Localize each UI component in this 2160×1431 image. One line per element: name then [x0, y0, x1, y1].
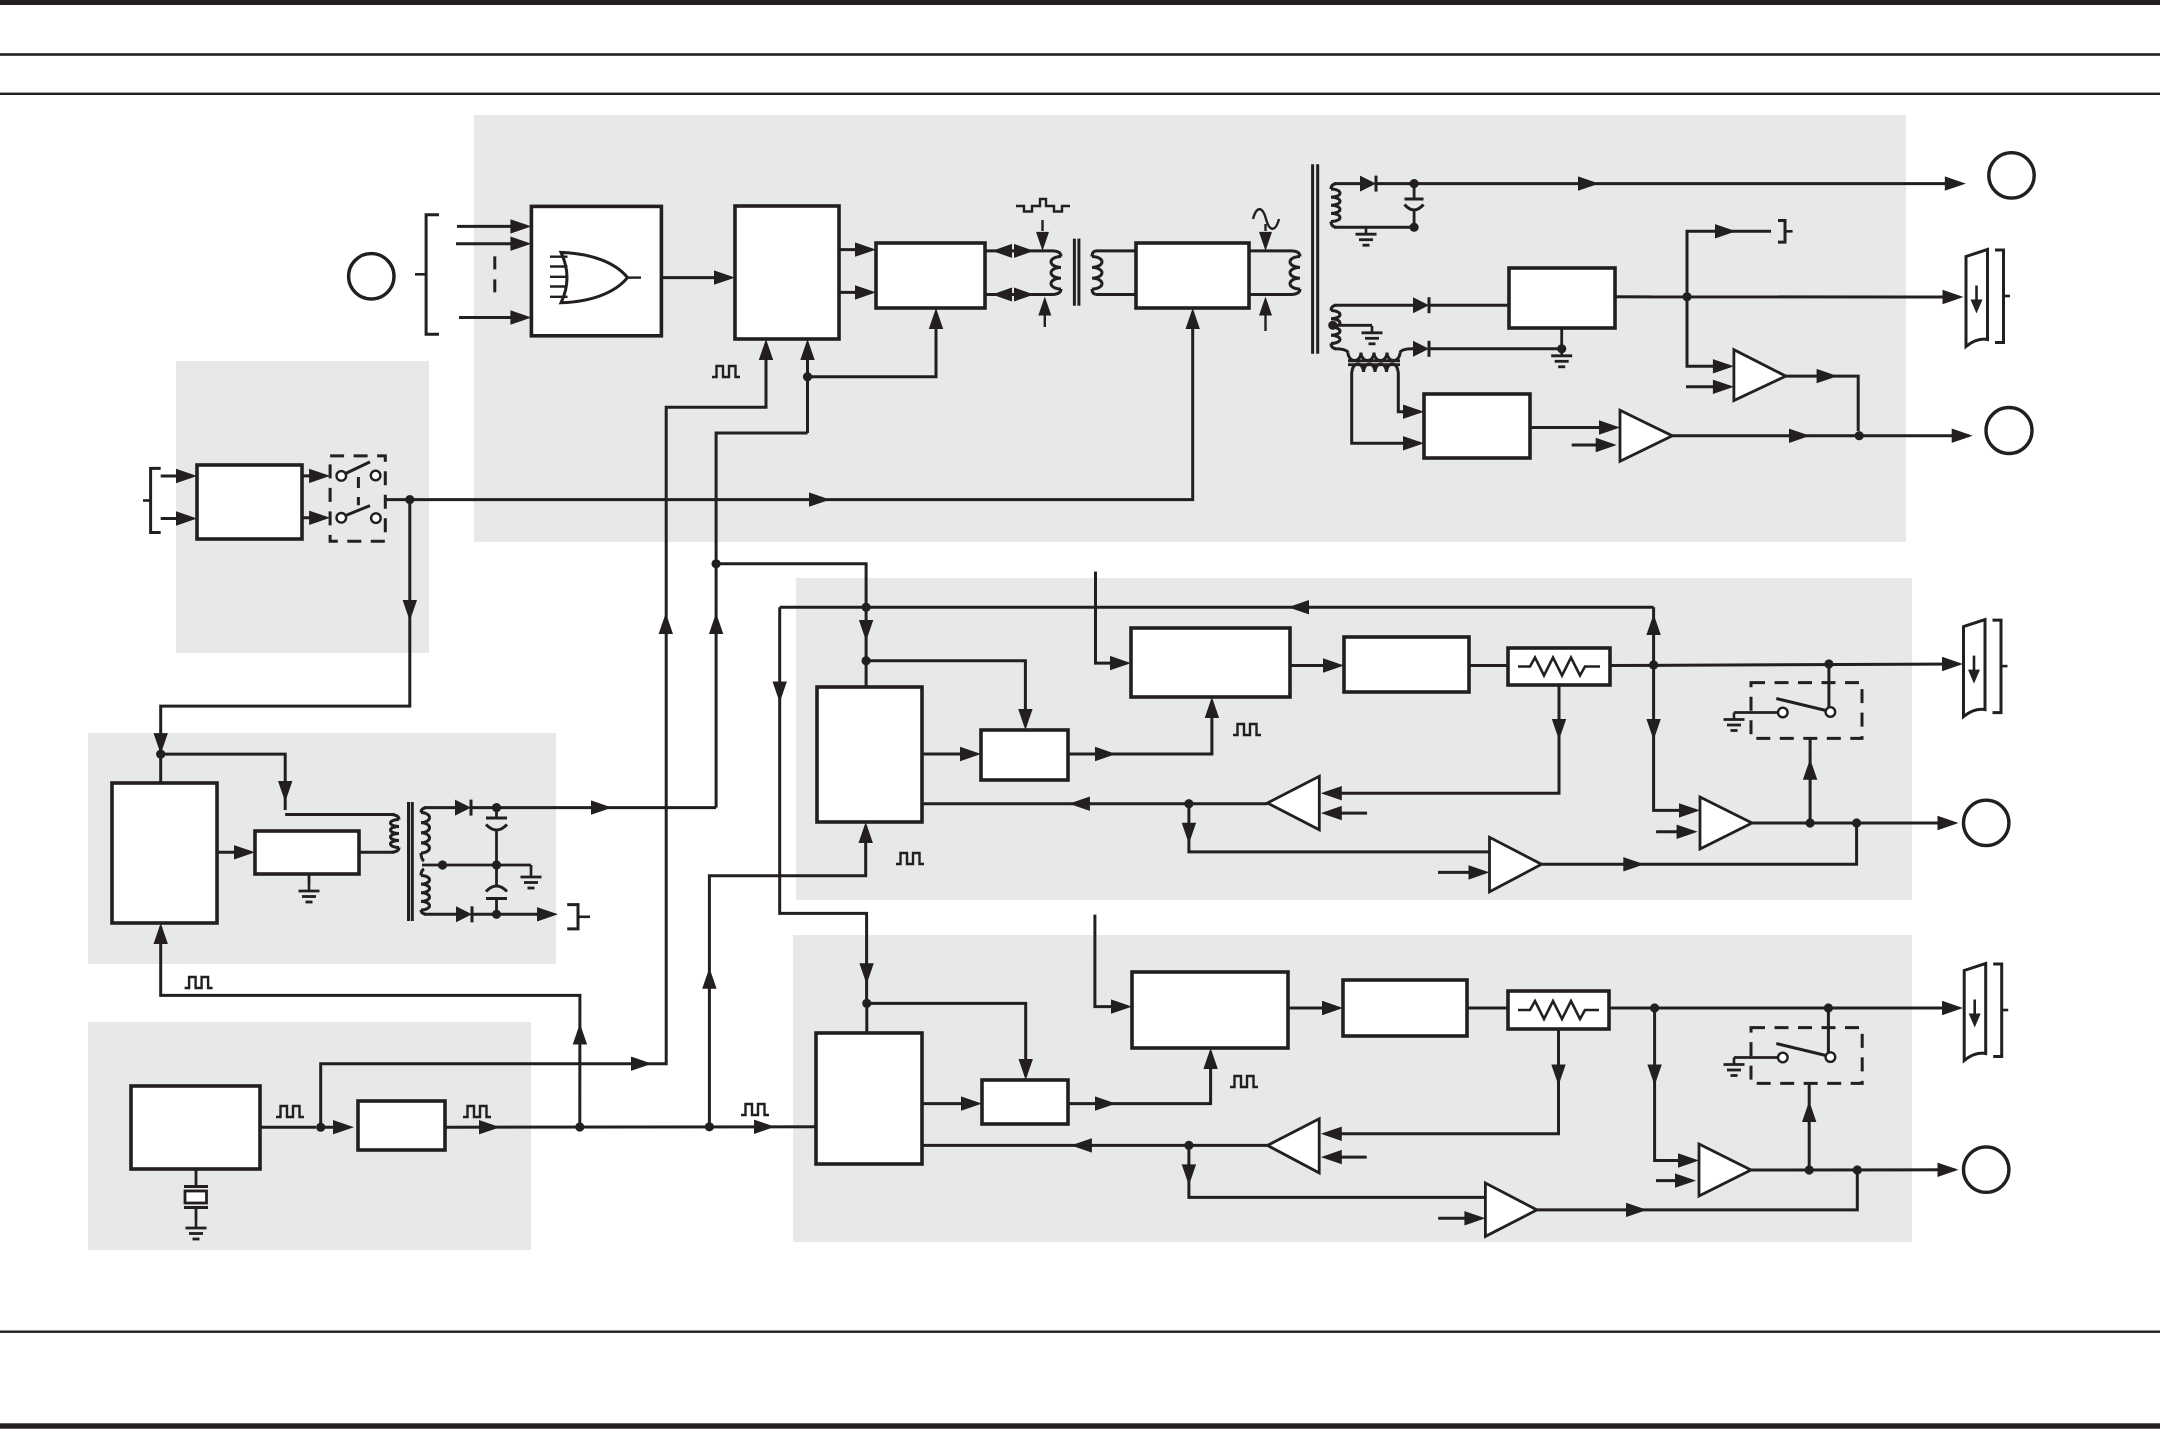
wire input 1 into U1 [457, 219, 531, 233]
header rule 1 [0, 53, 2160, 56]
capacitor C1 [1405, 184, 1424, 232]
block U16 (programmable divider 2) [816, 1033, 922, 1164]
pin P5 (circle) [1964, 1147, 2009, 1192]
block U9 (driver) [255, 831, 359, 874]
pulse annotation at U18 clock input [896, 853, 924, 864]
terminal component F2 (external varicap flag) [1964, 620, 2008, 717]
wire feedback drop to panel-2 feed [773, 607, 874, 999]
block U17 (prescaler 2) [982, 1080, 1068, 1124]
ground below D3 junction [1551, 349, 1572, 367]
ground at capacitor node [497, 865, 542, 888]
switch S1 lower contact circles and lever [337, 506, 381, 523]
wire R1 to VCO line [1610, 657, 1963, 671]
amp A4 reference input [1656, 1173, 1696, 1187]
amp A1 reference input [1686, 380, 1734, 394]
wire U20 to U21 [1288, 1001, 1343, 1015]
wire U11 output clock bus [445, 1120, 816, 1135]
wire pin P1 to bracket [415, 273, 426, 276]
wire node to U16 top [865, 1003, 868, 1033]
wire U4 to T2 top [1249, 249, 1292, 252]
wire CMP1 output to U18 [922, 797, 1267, 811]
wire U17 to U20 bottom [1068, 1048, 1218, 1111]
wire CMP2 output to U16 [922, 1138, 1268, 1152]
wire feedback bus (middle PLL) [780, 600, 1654, 614]
wire A1 output to junction [1786, 369, 1864, 440]
block U4 (RF mixer) [1136, 243, 1249, 308]
wire D5 to terminal J2 [472, 907, 558, 921]
wire U3 to T1 bottom with bidirectional arrows [985, 288, 1053, 302]
wire U10 to U11 [260, 1120, 354, 1134]
wire U5 ground stem [1560, 328, 1563, 349]
wire U5 output [1615, 290, 1964, 304]
wire CMP2 node down to amp A6 [1182, 1145, 1486, 1197]
resistor R1 (loop filter) [1508, 648, 1610, 685]
transformer T2 secondary winding A [1331, 184, 1340, 228]
wire U6 to amp A2 [1530, 420, 1620, 434]
comparator CMP2 (left-pointing) [1268, 1119, 1320, 1173]
block U21 (charge pump 2) [1343, 980, 1467, 1036]
wire clock branch 2 up to U8 [154, 923, 588, 1127]
wire R2 bottom to CMP2 input [1321, 1029, 1566, 1141]
transformer T1 core [1074, 239, 1079, 306]
wire D3 to junction [1429, 344, 1566, 353]
wire branch up to terminal bracket [1687, 224, 1771, 297]
node above U18 [862, 656, 871, 665]
block U19 (prescaler) [981, 730, 1068, 780]
capacitor C2 (rectifier) [486, 808, 507, 870]
node at converter input [156, 750, 165, 759]
amp A5 reference stub [1438, 865, 1490, 879]
pulse annotation at U8 clock input [185, 977, 213, 988]
transformer T4 secondary winding A [421, 808, 430, 861]
block U10 (crystal oscillator) [131, 1086, 260, 1169]
shaded panel input switch (left) [176, 361, 429, 653]
block U20 (phase comparator 2) [1132, 972, 1288, 1048]
wire junction down to converter [154, 500, 418, 754]
wire T3 left end to U6 lower input [1352, 372, 1424, 451]
wire U21 to R2 [1467, 1007, 1508, 1010]
wire into U7 lower [161, 511, 197, 525]
diode D1 [1360, 176, 1376, 192]
pulse annotation on clock bus [741, 1104, 769, 1115]
ground at T2B center tap [1362, 326, 1383, 344]
wire U2 to U3 upper [839, 242, 876, 256]
wire A5 output joining pin P4 line [1542, 823, 1857, 872]
pin P1 (mic input circle) [349, 254, 394, 299]
resistor R2 (loop filter 2) [1508, 991, 1609, 1029]
transformer T3 primary (horizontal) [1334, 349, 1413, 361]
diode D3 [1413, 341, 1429, 357]
terminal component F3 (external varicap flag 2) [1964, 964, 2008, 1061]
wire VCO line 2 down to switch S3 [1827, 1008, 1830, 1052]
pulse annotation at U20 bottom [1230, 1076, 1258, 1087]
switch S2 contacts and lever [1776, 699, 1835, 718]
terminal bracket J2 [567, 905, 590, 929]
wire D2 to U5 [1429, 304, 1509, 307]
switch S3 (dashed box) [1751, 1028, 1862, 1084]
wire A2 output to pin P3 [1672, 429, 1972, 444]
wire U9 to T4 primary bottom [359, 851, 394, 854]
wire switch S2 control [1803, 738, 1817, 823]
wire U7 to switch S1 lower [302, 511, 330, 525]
wire U14 to U15 [1290, 658, 1344, 672]
wire U3 to T1 top with bidirectional arrows [985, 244, 1053, 258]
wire input 3 into U1 [459, 310, 531, 324]
wire U7 to switch S1 upper [302, 469, 330, 483]
wire U18 to U19 [922, 747, 981, 761]
wire A4 output to pin P5 [1751, 1163, 1959, 1177]
wire junction up to feedback bus [1646, 607, 1660, 665]
wire branch down to amp A1 [1687, 297, 1734, 374]
pin P3 (circle) [1986, 408, 2032, 454]
wire clock branch 3 up to U18 [702, 822, 873, 1127]
wire CMP1 node down to amp A5 [1182, 804, 1490, 852]
transformer T3 secondary [1352, 364, 1398, 372]
amp A3 (TX buffer) [1700, 797, 1752, 849]
amp A1 (buffer) [1734, 350, 1786, 401]
block U14 (phase comparator) [1131, 628, 1290, 697]
wire T1 to U4 top [1096, 249, 1136, 252]
wire V+ rail up to transmitter [709, 433, 808, 808]
wire D1 to pin P2 [1376, 176, 1966, 190]
CMP2 reference stub [1321, 1150, 1367, 1164]
switch S2 (dashed box) [1751, 683, 1862, 739]
shaded panel DC-DC converter (mid-left) [88, 733, 556, 964]
wire VCO line down to switch S2 [1827, 664, 1830, 707]
pulse annotation at U11 output [463, 1106, 491, 1117]
ground at T2A return [1356, 227, 1377, 245]
switch S1 mechanical link (dashed) [357, 477, 360, 505]
transformer T4 core [409, 802, 413, 921]
transformer T4 secondary winding B [421, 869, 430, 914]
transformer T2 primary winding [1290, 251, 1300, 295]
stub wire above U20 [1093, 915, 1096, 960]
pulse annotation at U14 bottom [1233, 724, 1261, 735]
wire R1 bottom to CMP1 input [1321, 685, 1566, 800]
wire T2A to diode D1 [1334, 182, 1360, 185]
transformer T4 primary winding [391, 815, 400, 853]
bracket at U7 inputs [143, 468, 161, 532]
bracket input bus [426, 215, 439, 335]
pulse annotation at U10 output [276, 1106, 304, 1117]
header rule 2 [0, 93, 2160, 95]
wire branch to U3 bottom input [808, 308, 944, 377]
wire T4B to diode D5 [424, 913, 456, 916]
wire T1 to U4 bottom [1096, 293, 1136, 296]
dashed ellipsis between inputs [493, 256, 496, 300]
pin P2 (circle) [1989, 153, 2034, 198]
block U1 (input logic) [531, 206, 661, 335]
page top border rule [0, 0, 2160, 5]
OR gate inside U1 [550, 252, 641, 302]
ground below crystal [186, 1221, 207, 1239]
sine wave annotation at T2 [1253, 209, 1279, 251]
transformer T3 core [1348, 361, 1400, 365]
pulse annotation at U2 bottom [712, 366, 740, 377]
ground below U9 [299, 874, 320, 902]
ground at switch S3 [1724, 1058, 1779, 1076]
wire panel-2 feed node [862, 999, 871, 1008]
wire U16 to U17 [922, 1096, 982, 1110]
amp A6 reference stub [1438, 1211, 1485, 1225]
center tap of T2B [1328, 321, 1372, 330]
wire A3 output to pin P4 [1752, 816, 1959, 830]
up arrow annotation below T2 [1259, 297, 1272, 332]
wire U8 to U9 [217, 845, 255, 859]
wire U15 to R1 [1469, 664, 1508, 667]
wire U1 to U2 [661, 270, 735, 284]
wire junction down to amp A4 [1647, 1008, 1699, 1168]
shaded panel oscillator (bottom-left) [88, 1022, 531, 1250]
wire S1 output to junction [385, 495, 414, 504]
comparator CMP1 (left-pointing) [1267, 776, 1319, 830]
switch S3 contacts and lever [1776, 1044, 1835, 1063]
amp A6 (RX buffer 2) [1485, 1183, 1537, 1236]
wire T3 right end to U6 upper input [1398, 372, 1424, 419]
wire clock branch 1 up to U2 [321, 339, 774, 1127]
switch S1 (dashed box) [330, 456, 385, 541]
switch S1 upper contact circles and lever [337, 462, 381, 481]
wire U2 to U3 lower [839, 285, 876, 299]
transformer T2 core [1313, 164, 1318, 353]
footer rule [0, 1331, 2160, 1333]
block U6 (mute amp) [1424, 394, 1530, 458]
block U11 (divider) [358, 1101, 445, 1150]
wire A6 output joining pin P5 line [1537, 1170, 1857, 1217]
wire into U7 upper [161, 469, 197, 483]
transformer T1 primary winding [1051, 251, 1061, 295]
ground at switch S2 [1724, 713, 1779, 731]
terminal bracket J1 [1778, 221, 1793, 243]
amp A2 reference input [1572, 438, 1617, 452]
pin P4 (circle) [1964, 800, 2009, 845]
amp A3 reference input [1656, 825, 1698, 839]
wire node to U19 top [866, 661, 1033, 730]
block U15 (charge pump) [1344, 637, 1469, 692]
amp A2 (line amp) [1620, 410, 1672, 461]
crystal X1 [184, 1169, 208, 1221]
page bottom border rule [0, 1423, 2160, 1428]
wire node to T4 primary top [161, 754, 394, 814]
wire into U20 left [1095, 960, 1132, 1014]
wire junction down to amp A3 [1646, 665, 1700, 818]
wire main audio bus to U4 [410, 308, 1200, 507]
terminal component F1 (external cap flag) [1966, 250, 2010, 347]
CMP1 reference stub [1321, 806, 1367, 820]
diode D4 [455, 800, 471, 816]
shaded panel transmitter (top) [474, 115, 1906, 542]
block U7 (input amp) [197, 465, 302, 539]
wire V+ branch to U3 bottom [716, 564, 873, 687]
stub wire above U14 [1094, 572, 1097, 606]
block U5 (detector) [1509, 268, 1615, 328]
shaded panel PLL synthesizer 2 (bottom) [793, 935, 1912, 1242]
wire R2 to VCO line 2 [1609, 1001, 1963, 1015]
stepped waveform annotation at T1 [1016, 199, 1070, 251]
wire T2B to diode D2 [1334, 304, 1413, 307]
amp A5 (RX buffer) [1490, 837, 1542, 892]
shaded panel PLL synthesizer 1 (middle) [796, 578, 1912, 900]
wire D4 to V+ rail [471, 800, 716, 814]
wire U19 to U14 bottom [1068, 697, 1219, 761]
transformer T1 secondary winding [1092, 251, 1102, 295]
amp A4 (TX buffer 2) [1699, 1144, 1751, 1196]
wire T4A to diode D4 [424, 806, 455, 809]
wire T4 center tap [422, 860, 497, 869]
block U2 (modulator logic) [735, 206, 839, 339]
wire U2 second bottom input [800, 339, 814, 433]
wire switch S3 control [1802, 1083, 1816, 1170]
block U8 (DC-DC controller) [112, 783, 217, 923]
wire node to U8 [159, 754, 162, 783]
wire T2A return [1334, 226, 1414, 229]
transformer T2 secondary winding B [1331, 305, 1340, 349]
block U18 (programmable divider) [817, 687, 922, 822]
wire input 2 into U1 [456, 237, 531, 251]
wire into U14 left [1096, 606, 1132, 670]
capacitor C3 (rectifier) [486, 865, 507, 919]
block U3 (driver) [876, 243, 985, 308]
wire U4 to T2 bottom [1249, 293, 1292, 296]
diode D2 [1413, 297, 1429, 313]
wire node to U17 top [867, 1003, 1033, 1080]
up arrow annotation below T1 [1038, 297, 1051, 328]
diode D5 [456, 906, 472, 922]
